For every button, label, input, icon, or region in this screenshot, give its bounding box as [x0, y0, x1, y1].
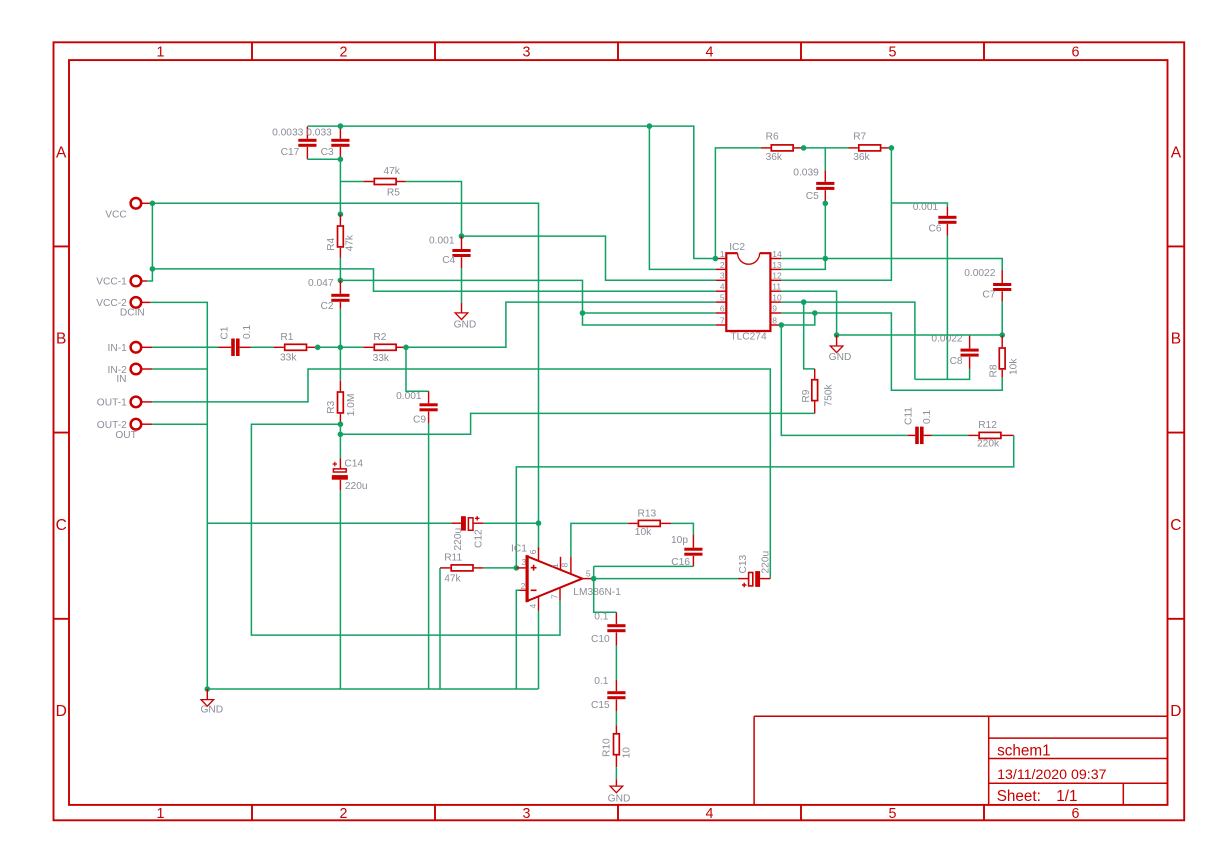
svg-text:C17: C17: [281, 147, 300, 158]
svg-text:220u: 220u: [761, 551, 772, 574]
pin 8 IC2: [771, 324, 782, 326]
node VCC-1 junction: [150, 266, 156, 272]
svg-text:6: 6: [528, 549, 538, 554]
wire C11 to R12: [932, 434, 969, 436]
node VCC junction: [150, 201, 156, 207]
svg-text:5: 5: [889, 806, 897, 822]
wire R3-bottom to IC1 pin7: [251, 424, 560, 635]
svg-text:R1: R1: [280, 332, 293, 343]
ground GND4: [610, 786, 623, 793]
wire pin10 down to R9: [804, 302, 815, 369]
svg-text:0.1: 0.1: [594, 611, 608, 622]
svg-text:schem1: schem1: [997, 742, 1051, 759]
svg-text:GND: GND: [829, 352, 852, 363]
svg-text:2: 2: [720, 260, 725, 270]
pin 12 IC2: [771, 279, 782, 281]
pin 3 IC2: [716, 279, 727, 281]
wire R12 right to IC1 pin3 net: [516, 435, 1013, 568]
ground GND3: [201, 700, 214, 707]
pin IN-2: [131, 364, 142, 375]
svg-text:47k: 47k: [383, 166, 400, 177]
svg-text:C15: C15: [591, 700, 610, 711]
node pin14 net junction: [823, 256, 829, 262]
svg-text:47k: 47k: [345, 234, 356, 251]
pin OUT-1: [131, 397, 142, 408]
svg-text:IN-1: IN-1: [108, 343, 128, 354]
svg-text:2: 2: [340, 806, 348, 822]
svg-text:0.0033: 0.0033: [272, 128, 303, 139]
pin VCC: [131, 198, 142, 209]
svg-text:C2: C2: [320, 301, 333, 312]
node R8 top junction: [999, 332, 1005, 338]
svg-text:R9: R9: [801, 389, 812, 402]
svg-text:R13: R13: [638, 508, 657, 519]
wire VCC-1 to IC2 pin4: [147, 269, 716, 291]
capacitor C16: [692, 535, 694, 548]
svg-text:5: 5: [889, 45, 897, 61]
node R7 right junction: [889, 145, 895, 151]
resistor R6: [761, 147, 770, 149]
svg-text:3: 3: [523, 806, 531, 822]
svg-text:47k: 47k: [444, 574, 461, 585]
svg-text:GND: GND: [454, 319, 477, 330]
svg-text:13: 13: [772, 260, 782, 270]
pin 13 IC2: [771, 268, 782, 270]
svg-text:C1: C1: [220, 326, 231, 339]
pin 2 IC1: [520, 589, 528, 591]
svg-text:33k: 33k: [280, 352, 297, 363]
node pin9 junction: [812, 310, 818, 316]
wire DCIN vertical rail: [151, 302, 208, 689]
svg-text:Sheet:: Sheet:: [997, 788, 1041, 805]
node IC1 pin3 junction: [514, 565, 520, 571]
svg-text:R10: R10: [601, 738, 612, 757]
svg-text:R2: R2: [373, 332, 386, 343]
wire C1 to R1: [251, 346, 274, 348]
capacitor C7: [1001, 270, 1003, 283]
svg-text:4: 4: [706, 806, 714, 822]
capacitor C6: [946, 207, 948, 216]
svg-text:0.1: 0.1: [242, 325, 253, 339]
resistor R5: [363, 181, 373, 183]
svg-text:C6: C6: [928, 224, 941, 235]
svg-text:A: A: [56, 145, 67, 162]
svg-text:C4: C4: [442, 255, 455, 266]
capacitor C9: [428, 391, 430, 403]
node C2 top junction: [338, 278, 344, 284]
capacitor C17: [306, 127, 308, 139]
pin 7 IC1: [559, 588, 561, 601]
svg-text:C11: C11: [904, 407, 915, 425]
resistor R12: [968, 434, 978, 436]
pin 1 IC2: [716, 258, 727, 260]
svg-text:R4: R4: [326, 237, 337, 250]
svg-text:R5: R5: [387, 188, 400, 199]
node R1 right junction: [315, 345, 321, 351]
pin 14 IC2: [771, 258, 782, 260]
pin 5 IC1: [582, 578, 591, 580]
resistor R1: [274, 346, 284, 348]
wire C2 bottom to R3: [339, 309, 341, 381]
pin OUT-2: [131, 419, 142, 430]
wire IN-2 stub: [152, 368, 207, 370]
wire C12 to VCC rail: [483, 522, 538, 524]
svg-text:1.0M: 1.0M: [346, 394, 357, 417]
wire IC1 output to C13: [592, 578, 739, 580]
wire C17 bottom link: [307, 158, 340, 160]
node C3 bottom junction: [338, 157, 344, 163]
svg-text:VCC-1: VCC-1: [96, 277, 127, 288]
svg-text:IN: IN: [116, 374, 126, 385]
capacitor C4: [461, 236, 463, 249]
wire R11 left to ground rail: [439, 568, 441, 689]
wire C5 bottom to pin14 net: [824, 203, 826, 258]
wire R10 to ground: [615, 767, 617, 779]
svg-text:C10: C10: [591, 634, 610, 645]
svg-text:3: 3: [521, 557, 526, 567]
svg-text:8: 8: [559, 563, 569, 568]
node pin10 junction: [801, 299, 807, 305]
node R3 bottom junction: [338, 421, 344, 427]
svg-text:4: 4: [720, 282, 725, 292]
svg-text:C3: C3: [321, 147, 334, 158]
svg-text:220u: 220u: [453, 528, 464, 551]
svg-text:10k: 10k: [1009, 358, 1020, 375]
pin 9 IC2: [771, 312, 782, 314]
svg-text:0.001: 0.001: [396, 391, 422, 402]
svg-text:GND: GND: [608, 793, 631, 804]
node IC1 output junction: [591, 576, 597, 582]
svg-text:14: 14: [772, 249, 782, 259]
wire OUT-2 stub: [152, 423, 207, 425]
svg-text:750k: 750k: [824, 384, 835, 407]
node C4 top junction: [459, 233, 465, 239]
svg-text:10p: 10p: [671, 535, 688, 546]
wire DCIN to C12: [207, 522, 451, 524]
svg-text:36k: 36k: [766, 152, 783, 163]
wire IC2 pin1 to R6: [715, 148, 761, 259]
svg-text:36k: 36k: [853, 152, 870, 163]
svg-text:7: 7: [549, 594, 559, 599]
resistor R7: [849, 147, 858, 149]
node top-net branch junction: [647, 123, 653, 129]
pin 5 IC2: [716, 301, 727, 303]
wire OUT-1 to C13: [152, 369, 770, 579]
wire pin8 to pin9 link: [781, 313, 815, 325]
svg-text:VCC: VCC: [105, 209, 127, 220]
svg-text:13/11/2020 09:37: 13/11/2020 09:37: [997, 767, 1107, 783]
capacitor C11: [908, 434, 915, 436]
wire R13 right to C16: [671, 523, 693, 534]
node C12 VCC junction: [536, 520, 542, 526]
svg-text:6: 6: [1072, 806, 1080, 822]
svg-text:220k: 220k: [977, 438, 1000, 449]
pin 4 IC1: [538, 596, 540, 610]
svg-text:R3: R3: [326, 400, 337, 413]
svg-text:4: 4: [706, 45, 714, 61]
wire C4 bottom to ground: [461, 268, 463, 303]
node input node junction: [338, 345, 344, 351]
op-amp IC2 TLC274: [726, 253, 770, 331]
capacitor C2: [339, 280, 341, 293]
node IC2 ground junction: [834, 332, 840, 338]
capacitor C12: [451, 522, 461, 524]
wire branch to IC2 pin6: [583, 312, 716, 314]
wire branch to IC2 pin2: [649, 126, 715, 269]
pin 2 IC2: [716, 268, 727, 270]
wire R5 left branch: [340, 181, 363, 183]
svg-text:0.033: 0.033: [306, 128, 332, 139]
svg-text:10: 10: [622, 747, 633, 759]
svg-text:220u: 220u: [345, 481, 368, 492]
wire C14 bottom to ground rail: [339, 490, 341, 689]
svg-text:DCIN: DCIN: [120, 308, 145, 319]
wire VCC rail to IC1 pin6: [152, 203, 538, 550]
capacitor C10: [615, 612, 617, 624]
svg-text:0.001: 0.001: [429, 235, 455, 246]
capacitor C14: [339, 459, 341, 469]
wire C16 bottom to IC1 output: [594, 566, 694, 578]
pin 10 IC2: [771, 301, 782, 303]
node pin6 branch junction: [580, 310, 586, 316]
capacitor C13: [738, 578, 748, 580]
resistor R2: [363, 346, 373, 348]
svg-text:0.1: 0.1: [594, 676, 608, 687]
wire C6 bottom to pin10 net: [946, 236, 948, 380]
wire R1 to R2: [318, 346, 364, 348]
svg-text:5: 5: [586, 568, 591, 578]
svg-text:4: 4: [528, 604, 538, 609]
svg-text:0.1: 0.1: [922, 410, 933, 424]
node R4 top junction: [338, 211, 344, 217]
wire C10 to C15: [615, 646, 617, 680]
svg-text:C8: C8: [950, 356, 963, 367]
svg-text:0.047: 0.047: [308, 278, 334, 289]
wire R9-bottom to C14 node: [340, 413, 814, 434]
svg-text:C12: C12: [474, 529, 485, 548]
resistor R4: [339, 214, 341, 225]
pin 4 IC2: [716, 290, 727, 292]
svg-text:1: 1: [157, 806, 165, 822]
resistor R10: [615, 725, 617, 733]
capacitor C3: [339, 126, 341, 139]
node R2 right junction: [403, 345, 409, 351]
node C14 top junction: [338, 432, 344, 438]
wire IC1 output down to C10: [594, 579, 617, 613]
svg-text:LM386N-1: LM386N-1: [573, 587, 621, 598]
pin 7 IC2: [716, 324, 727, 326]
pin 1 IC1: [560, 557, 562, 570]
capacitor C5: [824, 170, 826, 182]
pin IN-1: [131, 342, 142, 353]
pin VCC-1: [131, 276, 142, 287]
wire IC1 pin8 to R13: [571, 523, 628, 557]
svg-text:1: 1: [157, 45, 165, 61]
svg-text:R11: R11: [444, 553, 462, 564]
wire IC2 pin10 net: [781, 302, 915, 379]
svg-text:B: B: [1171, 331, 1181, 348]
svg-text:8: 8: [772, 315, 777, 325]
node IC2 pin1 junction: [713, 256, 719, 262]
svg-text:10k: 10k: [635, 527, 652, 538]
svg-text:R7: R7: [853, 132, 866, 143]
svg-text:C: C: [56, 517, 67, 534]
svg-text:C14: C14: [344, 458, 363, 469]
svg-text:IC2: IC2: [729, 242, 745, 253]
wire R5 right to C4 top: [406, 182, 462, 237]
svg-text:11: 11: [772, 282, 781, 292]
resistor R9: [814, 369, 816, 379]
op-amp IC1 LM386N-1: [527, 556, 582, 601]
wire R7 right down to IC2 pin12: [781, 148, 891, 280]
wire IC1 pin4 to ground rail: [538, 611, 540, 690]
resistor R8: [1001, 335, 1003, 347]
wire C5 top branch: [824, 148, 826, 170]
pin 6 IC1: [538, 548, 540, 562]
wire C6 top branch: [891, 203, 947, 207]
svg-text:12: 12: [772, 271, 782, 281]
node C3 top junction: [338, 123, 344, 129]
node C5 bottom junction: [823, 201, 829, 207]
svg-text:C9: C9: [413, 414, 426, 425]
svg-text:IC1: IC1: [511, 544, 527, 555]
ground GND2: [830, 346, 843, 353]
wire IC2 pin13 link: [781, 259, 825, 270]
wire C3 bottom down to R4: [339, 159, 341, 214]
wire C2-top to IC2 pin7: [340, 280, 715, 325]
svg-text:0.001: 0.001: [913, 202, 939, 213]
wire IC2 pin8 down to C11: [781, 325, 908, 435]
node R6 right junction: [801, 145, 807, 151]
wire top net C3/C17 to IC2 pin1: [307, 126, 715, 258]
svg-text:TLC274: TLC274: [730, 332, 767, 343]
svg-text:1: 1: [720, 249, 725, 259]
svg-text:C7: C7: [982, 289, 995, 300]
resistor R11: [440, 567, 450, 569]
resistor R13: [628, 522, 637, 524]
svg-text:2: 2: [521, 581, 526, 591]
svg-text:GND: GND: [200, 705, 223, 716]
ground GND1: [455, 313, 468, 320]
capacitor C8: [969, 335, 971, 349]
svg-text:C5: C5: [806, 191, 819, 202]
wire C4 net to IC2 pin3: [462, 236, 716, 280]
svg-text:R6: R6: [766, 132, 779, 143]
pin 11 IC2: [771, 290, 782, 292]
wire R4 bottom to C2: [339, 258, 341, 281]
svg-text:6: 6: [720, 303, 725, 313]
svg-text:R8: R8: [989, 364, 1000, 377]
svg-text:D: D: [56, 703, 67, 720]
pin VCC-2: [131, 297, 142, 308]
wire ground rail: [207, 688, 538, 690]
pin 6 IC2: [716, 312, 727, 314]
svg-text:3: 3: [523, 45, 531, 61]
wire C15 to R10: [615, 711, 617, 725]
svg-text:1/1: 1/1: [1056, 788, 1077, 805]
svg-text:9: 9: [772, 303, 777, 313]
wire R11 right to IC1 pin3: [483, 567, 516, 569]
pin 3 IC1: [516, 567, 527, 569]
svg-text:C13: C13: [738, 554, 749, 573]
wire R2 right to IC2 pin5: [406, 302, 716, 347]
node pin8 junction: [779, 322, 785, 328]
wire IC2 pin14 to C7: [781, 259, 1002, 271]
wire VCC to VCC-1 link: [151, 203, 153, 269]
svg-text:3: 3: [720, 271, 725, 281]
pin 8 IC1: [570, 557, 572, 574]
wire IC2 pin11 to ground: [781, 291, 837, 335]
svg-text:1: 1: [550, 563, 560, 568]
svg-text:7: 7: [720, 315, 725, 325]
node ground rail junction: [205, 686, 211, 692]
wire IN-1 to C1: [152, 346, 218, 348]
wire C14 top lead: [339, 434, 341, 458]
svg-text:A: A: [1171, 145, 1182, 162]
wire R6 to R7: [804, 147, 849, 149]
svg-text:5: 5: [720, 293, 725, 303]
wire C7 bottom to R8: [1001, 302, 1003, 335]
svg-text:R12: R12: [978, 420, 997, 431]
capacitor C1: [219, 346, 232, 348]
wire R3-bottom to C14 link: [339, 424, 341, 434]
svg-text:0.039: 0.039: [793, 168, 819, 179]
wire C8 bottom to pin10 net: [915, 369, 970, 380]
wire C9 bottom to ground rail: [428, 423, 430, 689]
resistor R3: [339, 381, 341, 391]
svg-text:10: 10: [772, 293, 782, 303]
svg-text:33k: 33k: [373, 353, 390, 364]
svg-text:C: C: [1170, 517, 1181, 534]
wire IC1 pin2 to ground rail: [516, 590, 519, 689]
wire R8 bottom to IC2 pin9: [781, 313, 1002, 390]
svg-text:B: B: [56, 331, 66, 348]
svg-text:0.0022: 0.0022: [964, 268, 995, 279]
svg-text:OUT-1: OUT-1: [97, 398, 127, 409]
svg-text:D: D: [1170, 703, 1181, 720]
wire R2 right to C9: [406, 347, 429, 391]
svg-text:OUT: OUT: [115, 430, 137, 441]
svg-text:2: 2: [340, 45, 348, 61]
capacitor C15: [615, 680, 617, 691]
wire ground to R8 top: [837, 334, 1003, 336]
svg-text:6: 6: [1072, 45, 1080, 61]
